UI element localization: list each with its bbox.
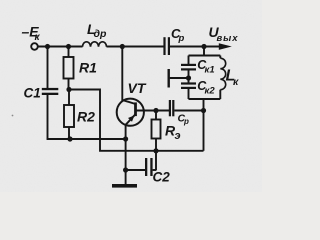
svg-text:к1: к1 <box>205 65 215 76</box>
svg-text:R1: R1 <box>79 60 97 76</box>
svg-text:R2: R2 <box>77 109 95 125</box>
svg-text:VT: VT <box>128 80 147 96</box>
svg-text:C1: C1 <box>24 86 41 101</box>
svg-text:др: др <box>94 28 107 40</box>
svg-text:вых: вых <box>217 33 239 44</box>
svg-text:р: р <box>183 117 189 126</box>
svg-text:C2: C2 <box>153 170 171 185</box>
svg-text:к2: к2 <box>205 86 216 97</box>
svg-text:э: э <box>175 130 181 142</box>
svg-text:к: к <box>233 76 239 88</box>
svg-text:р: р <box>178 33 185 44</box>
